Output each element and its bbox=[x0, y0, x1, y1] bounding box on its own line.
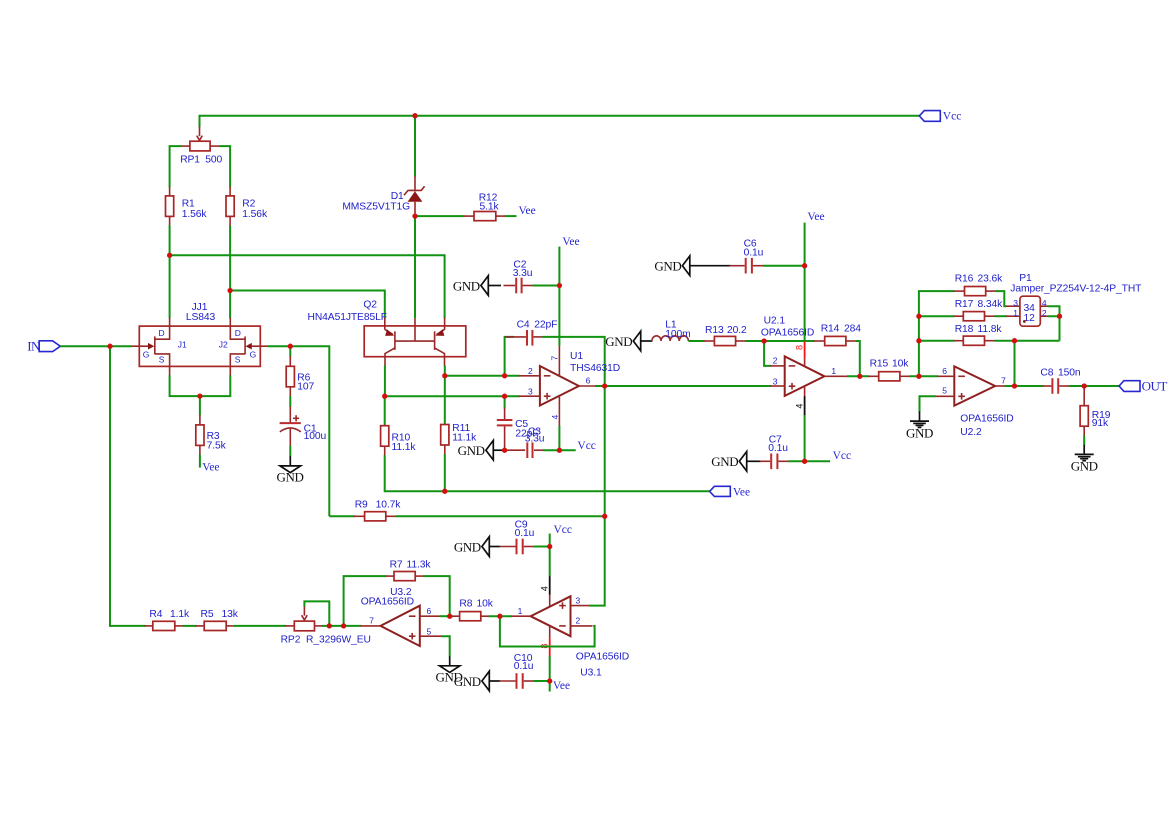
wire R7 to R8 node bbox=[423, 576, 450, 616]
junction C5 / C3 / GND bbox=[502, 448, 507, 453]
svg-text:11.1k: 11.1k bbox=[392, 442, 417, 453]
wire RP1 right to R2 bbox=[220, 146, 231, 187]
resistor R19 bbox=[1080, 386, 1111, 436]
svg-text:LS843: LS843 bbox=[186, 312, 216, 323]
wire pin4 node to Vcc bbox=[559, 449, 575, 451]
svg-text:OPA1656ID: OPA1656ID bbox=[576, 651, 629, 662]
svg-text:1.56k: 1.56k bbox=[242, 209, 268, 220]
op-amp U3.2 OPA1656ID (mirrored) bbox=[360, 587, 441, 646]
wire C9 to pin4 node bbox=[534, 546, 550, 548]
junction R8 / feedback bbox=[497, 614, 502, 619]
svg-text:R13: R13 bbox=[705, 325, 724, 336]
junction U2.1 output / R14 bbox=[857, 374, 862, 379]
svg-text:R17: R17 bbox=[955, 299, 974, 310]
ground GND (C1) bbox=[277, 456, 304, 484]
wire C3 to U1 pin4 bbox=[543, 449, 560, 451]
svg-text:GND: GND bbox=[454, 674, 481, 689]
svg-text:7: 7 bbox=[369, 615, 374, 625]
label GND (C7) bbox=[711, 452, 760, 472]
junction U1 output bbox=[602, 383, 607, 388]
wire R7 branch up bbox=[344, 576, 387, 626]
wire C6 to Vee node bbox=[763, 265, 805, 267]
svg-text:Vee: Vee bbox=[733, 487, 750, 499]
resistor R1 bbox=[166, 187, 208, 227]
svg-text:J1: J1 bbox=[178, 340, 187, 350]
svg-text:R7: R7 bbox=[390, 559, 403, 570]
svg-text:S: S bbox=[235, 354, 241, 364]
capacitor C6 bbox=[730, 238, 764, 273]
wire U2.1 pin4 to C7 node bbox=[804, 415, 806, 461]
svg-text:7.5k: 7.5k bbox=[207, 441, 227, 452]
capacitor C2 bbox=[504, 259, 534, 293]
svg-text:P1: P1 bbox=[1019, 273, 1032, 284]
power Vee (R3) bbox=[202, 461, 219, 473]
label GND (L1) bbox=[605, 331, 652, 351]
wire C8 to OUT bbox=[1069, 385, 1119, 387]
svg-text:R18: R18 bbox=[955, 324, 974, 335]
svg-text:10k: 10k bbox=[477, 599, 494, 610]
wire R18 rail bbox=[919, 340, 955, 342]
wire R10 drop bbox=[384, 396, 386, 425]
resistor R15 bbox=[868, 358, 910, 381]
wire JJ1 sources join bbox=[170, 375, 231, 396]
wire R3 to Vee bbox=[199, 455, 201, 468]
resistor R6 bbox=[286, 356, 314, 397]
op-amp U3.1 OPA1656ID (mirrored) bbox=[511, 576, 629, 679]
inductor L1 100m bbox=[652, 320, 691, 342]
resistor R16 bbox=[954, 274, 1004, 296]
svg-text:Vcc: Vcc bbox=[577, 440, 596, 452]
svg-text:11.3k: 11.3k bbox=[407, 559, 432, 570]
junction C7 / pin4 bbox=[802, 459, 807, 464]
resistor R12 bbox=[464, 192, 507, 220]
svg-text:U2.2: U2.2 bbox=[960, 427, 982, 438]
junction C6 / Vee bbox=[802, 263, 807, 268]
svg-text:OPA1656ID: OPA1656ID bbox=[960, 413, 1013, 424]
svg-text:20.2: 20.2 bbox=[727, 325, 747, 336]
wire IN node down to R4 bbox=[110, 346, 146, 626]
wire U2.2 pin5 to GND bbox=[920, 396, 936, 412]
wire RP2 wiper loop bbox=[304, 601, 329, 626]
resistor R17 bbox=[954, 299, 1004, 321]
junction IN node bbox=[107, 344, 112, 349]
wire R4 to R5 bbox=[183, 625, 197, 627]
junction U1 pin2 / C4 bbox=[502, 373, 507, 378]
svg-text:1: 1 bbox=[1013, 308, 1018, 318]
svg-text:HN4A51JTE85LF: HN4A51JTE85LF bbox=[308, 312, 387, 323]
resistor R11 bbox=[441, 423, 477, 455]
svg-text:3: 3 bbox=[528, 386, 533, 396]
svg-text:10.7k: 10.7k bbox=[376, 500, 402, 511]
resistor R5 bbox=[196, 609, 239, 631]
svg-text:3: 3 bbox=[1013, 298, 1018, 308]
svg-text:12: 12 bbox=[1024, 313, 1036, 324]
svg-text:0.1u: 0.1u bbox=[515, 528, 535, 539]
resistor R10 bbox=[381, 425, 417, 457]
junction D1/R12 bbox=[412, 213, 417, 218]
svg-text:100m: 100m bbox=[665, 329, 690, 340]
junction R18 / output drop bbox=[1012, 338, 1017, 343]
svg-text:U3.1: U3.1 bbox=[580, 667, 602, 678]
power port Vee (global) bbox=[710, 486, 751, 498]
junction R7 branch bbox=[341, 623, 346, 628]
wire U3.1 feedback loop bbox=[500, 616, 595, 646]
wire U3.2 pin5 to GND bbox=[441, 636, 450, 657]
capacitor C9 bbox=[499, 520, 535, 555]
svg-text:4: 4 bbox=[795, 404, 805, 409]
wire R9 to U1 output rail bbox=[396, 515, 605, 517]
svg-text:OPA1656ID: OPA1656ID bbox=[761, 327, 814, 338]
svg-text:2: 2 bbox=[528, 366, 533, 376]
port OUT bbox=[1119, 379, 1167, 394]
svg-text:GND: GND bbox=[1071, 459, 1098, 474]
junction R11 bottom bbox=[442, 489, 447, 494]
svg-text:13k: 13k bbox=[222, 609, 239, 620]
wire JJ1 gate2 to node bbox=[268, 346, 329, 516]
wire R16 to P1 pin3 bbox=[996, 291, 1007, 306]
ground GND (U2.2 pin5) bbox=[906, 411, 933, 440]
svg-text:Vee: Vee bbox=[519, 205, 536, 217]
svg-text:5: 5 bbox=[427, 626, 432, 636]
label GND (C2) bbox=[453, 276, 501, 296]
wire R17 rail bbox=[919, 315, 955, 317]
svg-text:D: D bbox=[235, 328, 241, 338]
power Vcc (U1 pin4) bbox=[577, 440, 596, 452]
wire R8 to U3.1 pin1 bbox=[489, 615, 512, 617]
wire U3.1 pin3 from R9 rail bbox=[589, 516, 605, 605]
wire R11 drop bbox=[444, 376, 446, 425]
svg-text:G: G bbox=[143, 349, 150, 359]
ground GND (U3.2 pin5) bbox=[436, 656, 463, 684]
svg-text:GND: GND bbox=[711, 454, 738, 469]
svg-text:Jamper_PZ254V-12-4P_THT: Jamper_PZ254V-12-4P_THT bbox=[1010, 284, 1142, 295]
power Vee (C10) bbox=[553, 680, 570, 692]
wire Q2 right collector to node bbox=[444, 365, 446, 375]
wire R1 bottom to JJ1 drain1 bbox=[169, 225, 171, 318]
wire R13 to node bbox=[745, 340, 764, 342]
power Vee (U1 pin7) bbox=[562, 236, 579, 248]
junction U1 pin4 / C3 bbox=[557, 448, 562, 453]
wire R12 to Vee bbox=[505, 215, 517, 217]
resistor R4 bbox=[145, 609, 190, 631]
wire R19 to GND bbox=[1083, 435, 1085, 445]
wire feedback rail up bbox=[919, 291, 955, 376]
svg-text:MMSZ5V1T1G: MMSZ5V1T1G bbox=[342, 201, 410, 212]
power Vee (R12) bbox=[519, 205, 536, 217]
wire R17 to P1 pin1 bbox=[995, 315, 1008, 317]
wire drop to output line bbox=[1014, 341, 1016, 386]
potentiometer RP2 bbox=[281, 606, 371, 645]
svg-text:U2.1: U2.1 bbox=[764, 316, 786, 327]
svg-text:Vee: Vee bbox=[562, 236, 579, 248]
wire node to U2.1 pin2 bbox=[764, 341, 771, 366]
svg-text:R16: R16 bbox=[955, 274, 974, 285]
svg-text:5.1k: 5.1k bbox=[480, 202, 500, 213]
wire Vcc to pin4 bbox=[549, 534, 551, 577]
op-amp U1 THS4631D bbox=[519, 346, 621, 427]
wire D1 to R12 bbox=[415, 215, 465, 217]
svg-text:D1: D1 bbox=[391, 191, 404, 202]
svg-text:10k: 10k bbox=[892, 358, 909, 369]
wire node to R14 bbox=[764, 340, 814, 342]
junction JJ1 sources bbox=[197, 393, 202, 398]
svg-text:C4: C4 bbox=[517, 319, 530, 330]
op-amp U2.1 OPA1656ID bbox=[761, 316, 848, 416]
resistor R2 bbox=[226, 187, 268, 227]
svg-text:R2: R2 bbox=[242, 199, 255, 210]
power Vcc (C9) bbox=[554, 524, 573, 536]
svg-text:THS4631D: THS4631D bbox=[570, 363, 620, 374]
junction R18 rail bbox=[916, 338, 921, 343]
op-amp U2.2 OPA1656ID bbox=[935, 366, 1014, 438]
wire U2.2 output to C8 bbox=[1005, 385, 1044, 387]
wire U1 output node bbox=[595, 385, 605, 387]
polarized capacitor C1 bbox=[280, 407, 327, 447]
svg-text:2: 2 bbox=[773, 356, 778, 366]
wire U1 output down to R9 node bbox=[604, 386, 606, 516]
connector P1 Jamper_PZ254V-12-4P_THT bbox=[1006, 273, 1142, 326]
svg-text:0.1u: 0.1u bbox=[768, 443, 788, 454]
resistor R7 bbox=[386, 559, 432, 580]
svg-text:OUT: OUT bbox=[1142, 379, 1168, 394]
wire L1 to R13 bbox=[688, 340, 704, 342]
label GND (C10) bbox=[454, 671, 500, 691]
wire C2 to Vee rail bbox=[533, 285, 560, 287]
svg-text:R5: R5 bbox=[201, 609, 214, 620]
junction R2/Q2 bbox=[227, 288, 232, 293]
svg-text:1: 1 bbox=[831, 366, 836, 376]
svg-text:Vee: Vee bbox=[553, 680, 570, 692]
svg-text:2: 2 bbox=[576, 616, 581, 626]
port IN bbox=[27, 338, 60, 353]
svg-text:7: 7 bbox=[1001, 376, 1006, 386]
junction P1 pin2 bbox=[1057, 314, 1062, 319]
power Vee (U2.1 pin8) bbox=[807, 211, 824, 223]
wire node to U1 pin2 bbox=[445, 375, 520, 377]
svg-text:G: G bbox=[250, 349, 257, 359]
potentiometer RP1 bbox=[180, 127, 222, 166]
svg-text:4: 4 bbox=[550, 415, 560, 420]
svg-text:2: 2 bbox=[1042, 308, 1047, 318]
svg-text:7: 7 bbox=[550, 356, 560, 361]
wire R14 to output node bbox=[856, 341, 860, 376]
svg-text:OPA1656ID: OPA1656ID bbox=[361, 597, 414, 608]
capacitor C8 bbox=[1040, 367, 1080, 394]
junction Vcc rail / D1 bbox=[412, 113, 417, 118]
wire pin8 node to Vee bbox=[549, 656, 551, 692]
wire node R1 to Q2 right top bbox=[170, 255, 445, 318]
svg-text:11.8k: 11.8k bbox=[978, 324, 1003, 335]
svg-text:11.1k: 11.1k bbox=[452, 432, 477, 443]
wire U1 output to U2.1 pin3 bbox=[605, 385, 771, 387]
junction Q2 left / R10 bbox=[382, 394, 387, 399]
capacitor C4 bbox=[505, 319, 558, 375]
wire top Vcc rail bbox=[200, 115, 920, 117]
wire R6 top stub bbox=[289, 346, 291, 356]
svg-text:GND: GND bbox=[654, 258, 681, 273]
svg-text:0.1u: 0.1u bbox=[744, 248, 764, 259]
resistor R9 bbox=[354, 500, 401, 521]
svg-text:GND: GND bbox=[458, 443, 485, 458]
junction C9 / U3.1 pin4 bbox=[547, 544, 552, 549]
power port Vcc (top right) bbox=[919, 110, 961, 122]
junction C2 / pin7 rail bbox=[557, 283, 562, 288]
svg-text:GND: GND bbox=[605, 334, 632, 349]
wire P1 pin2 node bbox=[1048, 316, 1060, 341]
svg-text:4: 4 bbox=[540, 586, 550, 591]
zener diode D1 MMSZ5V1T1G bbox=[342, 176, 424, 216]
svg-text:500: 500 bbox=[205, 154, 222, 165]
svg-text:RP2: RP2 bbox=[281, 634, 301, 645]
junction R17 rail bbox=[916, 314, 921, 319]
svg-text:6: 6 bbox=[427, 606, 432, 616]
capacitor C7 bbox=[760, 435, 790, 470]
resistor R18 bbox=[954, 324, 1003, 345]
svg-text:1.1k: 1.1k bbox=[170, 609, 190, 620]
label GND (C5) bbox=[458, 440, 505, 460]
junction U1 pin3 / C5 bbox=[502, 394, 507, 399]
wire R15 to U2.2 pin6 bbox=[910, 375, 938, 377]
wire R5 to RP2 bbox=[234, 625, 286, 627]
svg-text:RP1: RP1 bbox=[180, 154, 200, 165]
wire sources to R3 bbox=[199, 396, 201, 416]
svg-text:22pF: 22pF bbox=[534, 319, 557, 330]
wire R9 line bbox=[329, 515, 355, 517]
svg-text:R1: R1 bbox=[182, 199, 195, 210]
svg-text:GND: GND bbox=[906, 425, 933, 440]
wire U3.2 pin6 to R8 bbox=[440, 615, 453, 617]
svg-text:100u: 100u bbox=[304, 431, 327, 442]
wire C10 to pin8 node bbox=[534, 680, 550, 682]
svg-text:R15: R15 bbox=[870, 358, 889, 369]
svg-text:GND: GND bbox=[277, 470, 304, 485]
ground GND (R19) bbox=[1071, 445, 1098, 474]
wire C7 node bbox=[788, 460, 830, 462]
svg-text:GND: GND bbox=[454, 539, 481, 554]
power Vcc (C7) bbox=[833, 450, 852, 462]
wire D1 to Q2 base bbox=[414, 216, 416, 318]
wire RP1 left to R1 bbox=[170, 146, 182, 187]
svg-text:8.34k: 8.34k bbox=[978, 299, 1004, 310]
svg-text:8: 8 bbox=[795, 345, 805, 350]
wire Vee to U1 pin7 bbox=[558, 247, 560, 346]
svg-text:Vcc: Vcc bbox=[554, 524, 573, 536]
wire output node to R15 bbox=[847, 375, 869, 377]
svg-text:R4: R4 bbox=[149, 609, 162, 620]
wire node R2 to Q2 left top bbox=[230, 291, 385, 319]
svg-text:GND: GND bbox=[453, 279, 480, 294]
svg-text:U1: U1 bbox=[570, 351, 583, 362]
junction RP2 wiper bbox=[327, 623, 332, 628]
svg-text:4: 4 bbox=[1042, 298, 1047, 308]
svg-text:91k: 91k bbox=[1092, 418, 1109, 429]
svg-text:Vee: Vee bbox=[202, 461, 219, 473]
junction C8 / R19 bbox=[1082, 383, 1087, 388]
svg-text:R8: R8 bbox=[459, 599, 472, 610]
svg-text:1.56k: 1.56k bbox=[182, 209, 208, 220]
resistor R3 bbox=[196, 415, 227, 456]
svg-text:1: 1 bbox=[518, 606, 523, 616]
svg-text:3: 3 bbox=[576, 596, 581, 606]
wire Q2 left collector to node bbox=[384, 365, 386, 396]
wire R6 to C1 bbox=[289, 396, 291, 407]
wire U1 pin4 to node bbox=[558, 426, 560, 451]
svg-text:R_3296W_EU: R_3296W_EU bbox=[306, 634, 371, 645]
svg-text:107: 107 bbox=[297, 382, 314, 393]
capacitor C10 bbox=[499, 653, 535, 689]
capacitor C5 bbox=[497, 396, 539, 450]
wire R11 bottom stub bbox=[444, 454, 446, 491]
junction R13 / U2.1 pin2 bbox=[761, 338, 766, 343]
wire R18 to corner bbox=[995, 340, 1060, 342]
svg-text:Vee: Vee bbox=[807, 211, 824, 223]
wire Vee down to U2.1 pin8 bbox=[804, 223, 806, 342]
svg-text:D: D bbox=[159, 328, 165, 338]
wire C1 to GND bbox=[289, 446, 291, 457]
svg-text:R14: R14 bbox=[821, 324, 840, 335]
resistor R14 bbox=[814, 324, 862, 346]
dual JFET JJ1 LS843 bbox=[131, 302, 269, 376]
wire IN to JJ1 gate1 bbox=[60, 345, 131, 347]
svg-text:6: 6 bbox=[942, 366, 947, 376]
resistor R13 bbox=[704, 325, 748, 346]
svg-text:R9: R9 bbox=[355, 500, 368, 511]
junction R1/Q2 bbox=[167, 253, 172, 258]
capacitor C3 bbox=[505, 426, 545, 458]
junction R15 / feedback bbox=[916, 374, 921, 379]
wire node to U1 pin3 bbox=[385, 395, 520, 397]
label GND (C9) bbox=[454, 537, 500, 557]
junction Q2 right / R11 bbox=[442, 373, 447, 378]
wire P1 pin4 to pin2 node bbox=[1048, 306, 1060, 316]
svg-text:Vcc: Vcc bbox=[943, 110, 962, 122]
svg-text:3.3u: 3.3u bbox=[513, 268, 533, 279]
svg-text:6: 6 bbox=[586, 376, 591, 386]
resistor R8 bbox=[452, 599, 494, 621]
dual transistor Q2 HN4A51JTE85LF bbox=[308, 300, 466, 367]
wire RP1 wiper drop bbox=[199, 115, 201, 127]
svg-text:S: S bbox=[159, 354, 165, 364]
svg-text:284: 284 bbox=[844, 324, 861, 335]
label GND (C6) bbox=[654, 256, 730, 276]
svg-text:150n: 150n bbox=[1058, 367, 1081, 378]
svg-text:J2: J2 bbox=[219, 340, 228, 350]
svg-text:3.3u: 3.3u bbox=[525, 434, 545, 445]
wire C4 to U1 output bbox=[542, 337, 604, 386]
svg-text:Vcc: Vcc bbox=[833, 450, 852, 462]
wire R10/R11 to Vee port bbox=[385, 455, 710, 491]
junction R6 top bbox=[288, 344, 293, 349]
junction C10 / U3.1 pin8 bbox=[547, 678, 552, 683]
wire RP2 right to U3.2 out bbox=[322, 625, 361, 627]
junction R9 / U3.1 pin3 rail bbox=[602, 514, 607, 519]
junction U2.2 output / R18 drop bbox=[1012, 383, 1017, 388]
svg-text:3: 3 bbox=[773, 377, 778, 387]
svg-text:C8: C8 bbox=[1040, 367, 1053, 378]
junction R7 / R8 / pin6 bbox=[447, 614, 452, 619]
svg-text:5: 5 bbox=[942, 386, 947, 396]
svg-text:Q2: Q2 bbox=[363, 300, 377, 311]
svg-text:23.6k: 23.6k bbox=[978, 274, 1004, 285]
wire Vcc rail to D1 bbox=[414, 116, 416, 177]
svg-text:0.1u: 0.1u bbox=[514, 661, 534, 672]
wire R2 bottom to JJ1 drain2 bbox=[229, 225, 231, 318]
